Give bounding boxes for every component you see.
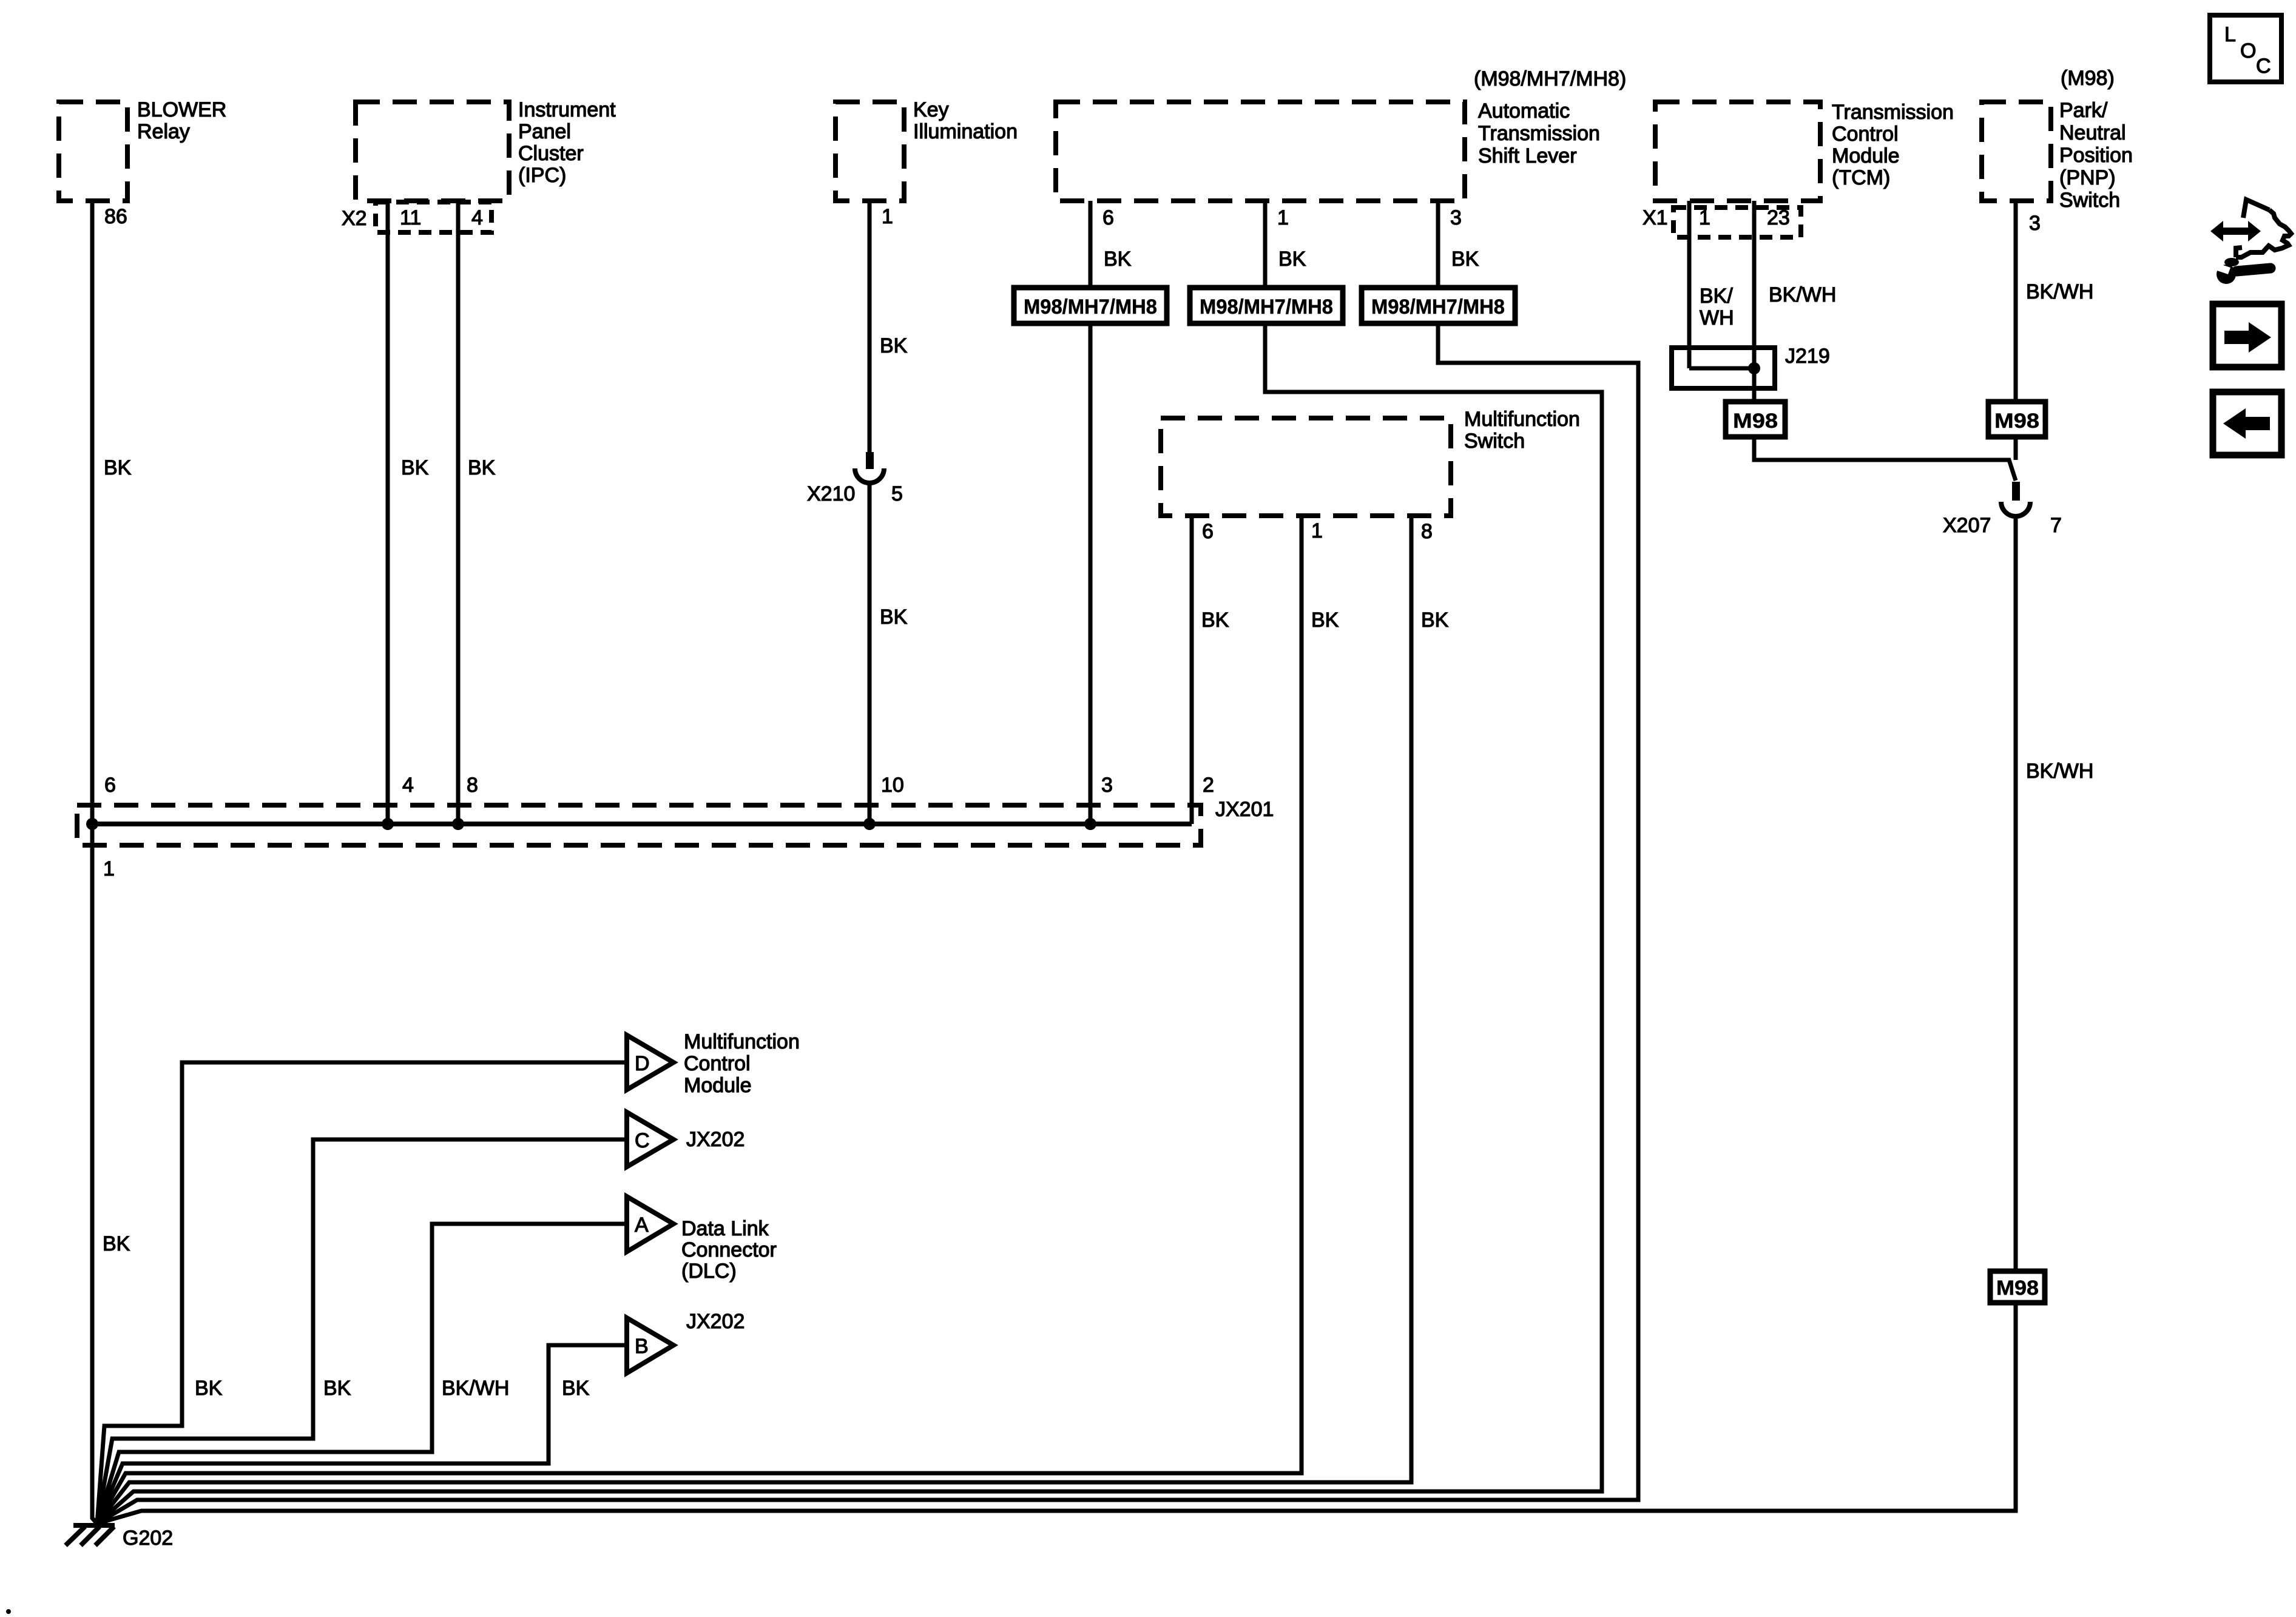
wire multifunction switch pin 8 to ground [97, 516, 1411, 1524]
wire B to ground [97, 1345, 627, 1524]
svg-text:L: L [2224, 23, 2236, 46]
svg-text:X210: X210 [807, 482, 855, 505]
svg-text:Control: Control [684, 1052, 751, 1075]
svg-text:(PNP): (PNP) [2059, 166, 2116, 189]
harness label box M98 (bottom) [1990, 1271, 2045, 1303]
svg-text:(DLC): (DLC) [681, 1260, 737, 1283]
svg-text:Switch: Switch [1464, 430, 1525, 453]
svg-text:M98: M98 [1733, 410, 1778, 433]
svg-text:(IPC): (IPC) [518, 164, 566, 187]
period mark bottom-left [6, 1609, 11, 1614]
pin 4 [471, 206, 483, 229]
pin 23 [1767, 206, 1790, 229]
svg-text:Switch: Switch [2059, 189, 2120, 212]
wire shift lever pin 1 to ground [97, 201, 1602, 1524]
svg-text:O: O [2240, 39, 2256, 62]
svg-text:BK/: BK/ [1700, 285, 1733, 308]
svg-text:A: A [635, 1214, 649, 1237]
pin 1 [882, 205, 893, 228]
svg-text:5: 5 [891, 482, 903, 505]
wire IPC pin 11 to JX201 [386, 201, 390, 824]
svg-text:M98/MH7/MH8: M98/MH7/MH8 [1371, 295, 1505, 319]
svg-text:Control: Control [1832, 123, 1899, 146]
junction bus JX201 (dashed box) [77, 798, 1274, 845]
wire label BK (ATSL 6) [1104, 248, 1132, 271]
svg-text:8: 8 [467, 774, 478, 797]
component Key Illumination (dashed box) [836, 98, 1018, 201]
junction dot (ATSL6/JX201) [1084, 818, 1096, 830]
svg-text:C: C [2256, 55, 2271, 78]
svg-text:Transmission: Transmission [1478, 122, 1600, 145]
wire A to ground [97, 1224, 627, 1524]
svg-text:6: 6 [1202, 520, 1214, 543]
wire label BK/WH (PNP) [2026, 280, 2093, 303]
pin 6 [1102, 206, 1114, 229]
splice J219 (box) [1672, 345, 1830, 388]
svg-text:2: 2 [1203, 774, 1214, 797]
harness label box M98 (left) [1726, 402, 1785, 437]
bus JX201 solid conductor [92, 822, 1192, 826]
wire label BK (MFS 1) [1311, 609, 1339, 632]
svg-text:D: D [635, 1052, 650, 1075]
svg-text:BK: BK [1451, 248, 1479, 271]
pin 6 [1202, 520, 1214, 543]
svg-text:(M98/MH7/MH8): (M98/MH7/MH8) [1474, 67, 1626, 90]
svg-text:BK: BK [1201, 609, 1229, 632]
bus pin 10 [881, 774, 904, 797]
bus pin 8 [467, 774, 478, 797]
svg-text:BK: BK [880, 334, 908, 357]
svg-text:BK: BK [104, 456, 132, 479]
svg-text:BK: BK [1104, 248, 1132, 271]
svg-text:1: 1 [1277, 206, 1289, 229]
svg-text:11: 11 [400, 206, 421, 229]
component BLOWER Relay (dashed box) [59, 98, 226, 201]
svg-text:BK: BK [103, 1232, 130, 1255]
junction dot (IPC11/JX201) [382, 818, 394, 830]
ground G202 [66, 1525, 173, 1550]
wire label BK (main vertical) [103, 1232, 130, 1255]
wire label BK (key illumination) [880, 334, 908, 357]
svg-text:Relay: Relay [137, 120, 190, 143]
wire TCM pin 1 to J219 [1687, 201, 1692, 368]
wire PNP pin 3 to M98 [2014, 201, 2018, 460]
svg-text:Module: Module [684, 1074, 752, 1097]
svg-text:23: 23 [1767, 206, 1790, 229]
wire label BK (blower) [104, 456, 132, 479]
svg-text:86: 86 [104, 205, 127, 228]
pin 11 [400, 206, 421, 229]
wire multifunction switch pin 1 to ground [97, 516, 1302, 1524]
off-page triangle A (Data Link Connector DLC) [627, 1197, 777, 1283]
wire label BK (ATSL 1) [1278, 248, 1306, 271]
svg-text:1: 1 [1311, 519, 1323, 542]
svg-text:8: 8 [1421, 520, 1433, 543]
component Multifunction Switch (dashed box) [1161, 408, 1580, 516]
svg-text:JX202: JX202 [686, 1310, 745, 1333]
connector X2 (dashed box) [342, 202, 491, 232]
svg-text:10: 10 [881, 774, 904, 797]
icon hand outline [2236, 200, 2291, 257]
bus pin 4 [402, 774, 414, 797]
component Automatic Transmission Shift Lever (dashed box) [1056, 100, 1600, 201]
svg-text:BK: BK [323, 1377, 351, 1400]
svg-text:B: B [635, 1335, 649, 1358]
svg-text:Key: Key [913, 98, 949, 121]
wire inside J219 [1689, 366, 1754, 371]
connector X210 (inline connector) [807, 452, 903, 505]
svg-text:Connector: Connector [681, 1238, 777, 1261]
wire multifunction switch pin 6 to JX201 [1190, 516, 1194, 824]
svg-text:JX202: JX202 [686, 1128, 745, 1151]
splice label box M98/MH7/MH8 (1) [1014, 288, 1167, 323]
svg-text:JX201: JX201 [1215, 798, 1274, 821]
svg-text:(M98): (M98) [2061, 67, 2115, 90]
wire X207 pin 7 to ground [97, 517, 2016, 1524]
svg-text:BK/WH: BK/WH [2026, 280, 2093, 303]
icon arrow box (right) [2213, 304, 2281, 367]
svg-text:Cluster: Cluster [518, 142, 584, 165]
svg-text:M98: M98 [1994, 410, 2039, 433]
splice label box M98/MH7/MH8 (3) [1362, 288, 1515, 323]
wire blower relay pin 86 to ground [92, 201, 97, 1524]
svg-text:BLOWER: BLOWER [137, 98, 226, 121]
svg-text:1: 1 [882, 205, 893, 228]
svg-text:X2: X2 [342, 207, 367, 230]
svg-text:BK: BK [880, 606, 908, 629]
svg-text:3: 3 [2029, 212, 2041, 235]
bus pin 1 (below) [103, 857, 115, 880]
off-page triangle D (Multifunction Control Module) [627, 1030, 800, 1097]
svg-text:3: 3 [1101, 774, 1113, 797]
svg-text:Neutral: Neutral [2059, 121, 2126, 144]
harness label box M98 (right) [1988, 402, 2045, 437]
svg-text:Multifunction: Multifunction [684, 1030, 800, 1053]
svg-text:M98/MH7/MH8: M98/MH7/MH8 [1024, 295, 1157, 319]
svg-text:Transmission: Transmission [1832, 101, 1954, 124]
bus pin 6 [104, 774, 116, 797]
svg-text:Shift Lever: Shift Lever [1478, 144, 1577, 167]
junction dot (blower/JX201) [86, 818, 98, 830]
svg-text:BK: BK [1421, 609, 1449, 632]
wire label BK (below X210) [880, 606, 908, 629]
svg-text:1: 1 [103, 857, 115, 880]
wire D to ground [97, 1062, 627, 1524]
off-page triangle C (JX202) [627, 1112, 745, 1167]
pin 1 [1699, 206, 1710, 229]
pin 3 [2029, 212, 2041, 235]
pin 8 [1421, 520, 1433, 543]
junction dot (IPC4/JX201) [452, 818, 464, 830]
svg-text:G202: G202 [123, 1527, 173, 1550]
wire label BK/WH (TCM 1) [1700, 285, 1734, 329]
svg-text:Data Link: Data Link [681, 1217, 769, 1240]
svg-text:3: 3 [1450, 206, 1462, 229]
wire label BK/WH (TCM 23) [1769, 283, 1836, 306]
svg-text:Panel: Panel [518, 120, 571, 143]
splice label box M98/MH7/MH8 (2) [1190, 288, 1343, 323]
wire label BK (C) [323, 1377, 351, 1400]
wire label BK (MFS 8) [1421, 609, 1449, 632]
wire shift lever pin 6 to JX201 [1089, 201, 1093, 824]
off-page triangle B (JX202) [627, 1310, 745, 1373]
pin 3 [1450, 206, 1462, 229]
label (M98) above PNP switch [2061, 67, 2115, 90]
bus pin 3 [1101, 774, 1113, 797]
svg-text:BK: BK [562, 1377, 590, 1400]
component Instrument Panel Cluster IPC (dashed box) [356, 98, 616, 201]
wire key illumination pin 1 to X210 [868, 201, 872, 452]
svg-text:Instrument: Instrument [518, 98, 616, 121]
svg-text:BK/WH: BK/WH [442, 1377, 509, 1400]
wire X210 pin 5 to JX201 [868, 485, 872, 824]
svg-text:6: 6 [104, 774, 116, 797]
wire label BK/WH (long run) [2026, 760, 2093, 783]
svg-text:6: 6 [1102, 206, 1114, 229]
svg-text:Park/: Park/ [2059, 99, 2108, 122]
icon LOC box [2210, 15, 2281, 82]
svg-text:Automatic: Automatic [1478, 100, 1570, 123]
wire TCM pin 23 to X207 [1754, 201, 2016, 481]
component Transmission Control Module TCM (dashed box) [1655, 101, 1954, 201]
icon double arrow [2210, 221, 2261, 241]
pin 1 [1311, 519, 1323, 542]
wire label BK (B) [562, 1377, 590, 1400]
svg-text:BK: BK [1311, 609, 1339, 632]
svg-text:Position: Position [2059, 144, 2133, 167]
svg-text:Illumination: Illumination [913, 120, 1018, 143]
svg-text:1: 1 [1699, 206, 1710, 229]
wire label BK (D) [195, 1377, 223, 1400]
wire label BK (ATSL 3) [1451, 248, 1479, 271]
svg-text:Multifunction: Multifunction [1464, 408, 1580, 431]
wire label BK/WH (A) [442, 1377, 509, 1400]
svg-text:J219: J219 [1785, 345, 1830, 368]
svg-text:X207: X207 [1943, 514, 1991, 537]
svg-text:BK: BK [401, 456, 429, 479]
svg-text:BK: BK [195, 1377, 223, 1400]
wire IPC pin 4 to JX201 [456, 201, 461, 824]
junction dot (X210/JX201) [863, 818, 876, 830]
icon arrow box (left) [2213, 392, 2281, 455]
component Park/Neutral Position PNP Switch (dashed box) [1982, 99, 2133, 212]
wire shift lever pin 3 to ground [97, 201, 1638, 1524]
junction dot (J219) [1748, 362, 1760, 374]
svg-text:Module: Module [1832, 144, 1900, 167]
svg-text:4: 4 [471, 206, 483, 229]
svg-text:4: 4 [402, 774, 414, 797]
bus pin 2 [1203, 774, 1214, 797]
svg-text:7: 7 [2050, 514, 2062, 537]
connector X1 (dashed box) [1643, 206, 1801, 237]
svg-text:BK/WH: BK/WH [2026, 760, 2093, 783]
wire C to ground [97, 1139, 627, 1524]
connector X207 (inline connector) [1943, 482, 2062, 537]
svg-text:X1: X1 [1643, 206, 1668, 229]
label (M98/MH7/MH8) above shift lever [1474, 67, 1626, 90]
svg-text:(TCM): (TCM) [1832, 166, 1890, 189]
svg-text:BK: BK [1278, 248, 1306, 271]
pin 1 [1277, 206, 1289, 229]
svg-text:BK: BK [468, 456, 496, 479]
wire label BK (MFS 6) [1201, 609, 1229, 632]
svg-text:C: C [635, 1129, 650, 1152]
svg-text:WH: WH [1700, 306, 1734, 329]
svg-text:M98: M98 [1996, 1277, 2039, 1300]
svg-text:M98/MH7/MH8: M98/MH7/MH8 [1200, 295, 1333, 319]
wire label BK (IPC 11) [401, 456, 429, 479]
pin 86 [104, 205, 127, 228]
wire label BK (IPC 4) [468, 456, 496, 479]
svg-text:BK/WH: BK/WH [1769, 283, 1836, 306]
icon wrench [2213, 258, 2271, 284]
